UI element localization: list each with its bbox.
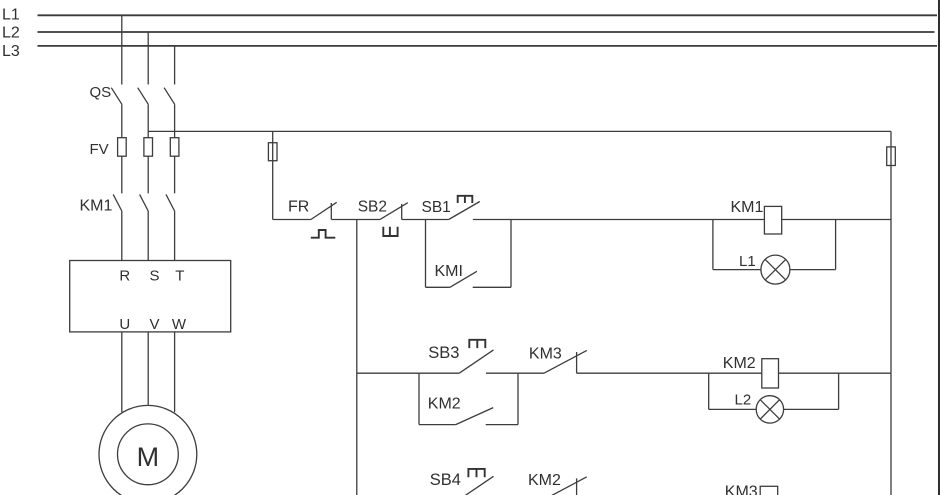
svg-text:L2: L2 <box>2 25 20 42</box>
rung1 wire SB2 to SB1 <box>402 219 449 221</box>
KM1 auxiliary contact branch (KMI) <box>426 220 512 288</box>
rung2 wire SB3 to KM3 <box>486 372 544 374</box>
fuse FV pole 3 <box>170 138 179 157</box>
control left fuse drop wire <box>272 131 274 219</box>
start pushbutton SB4 (NO, partially clipped) <box>459 476 493 495</box>
rung1 wire FR to SB2 <box>331 219 380 221</box>
rung2 wire KM3 to KM2 coil <box>577 372 762 374</box>
KM2 auxiliary contact branch <box>419 373 518 424</box>
svg-text:T: T <box>175 267 184 284</box>
svg-text:FV: FV <box>90 141 109 158</box>
start pushbutton SB1 (NO) <box>449 202 480 220</box>
interlock contact KM3 (NC) <box>544 350 587 373</box>
wire phase1 fuse to KM1 <box>121 156 123 193</box>
svg-text:KM2: KM2 <box>528 472 561 489</box>
SB3 pushbutton actuator symbol <box>469 340 485 348</box>
wire phase3 drop from L3 <box>174 46 176 85</box>
disconnect switch QS pole 2 <box>138 88 149 138</box>
svg-text:V: V <box>149 316 159 333</box>
wire phase3 fuse to KM1 <box>174 156 176 193</box>
svg-text:S: S <box>149 267 159 284</box>
svg-text:SB4: SB4 <box>430 471 461 489</box>
contactor coil KM2 <box>762 359 779 388</box>
svg-text:QS: QS <box>90 84 112 101</box>
rung2 wire left <box>357 372 459 374</box>
FR thermal element symbol <box>311 230 336 238</box>
control left fuse <box>268 143 277 161</box>
svg-text:L2: L2 <box>735 391 752 408</box>
rung1 wire coil to right bus <box>782 219 891 221</box>
interlock contact KM2 (NC, partially clipped) <box>544 477 587 495</box>
drawing frame right border <box>938 0 940 495</box>
svg-text:KM1: KM1 <box>80 198 113 215</box>
SB2 pushbutton actuator symbol <box>383 227 397 236</box>
contactor KM1 main contact pole 1 <box>113 194 122 260</box>
contactor KM1 main contact pole 3 <box>166 194 175 260</box>
contactor KM1 main contact pole 2 <box>140 194 149 260</box>
contactor coil KM3 (partially clipped) <box>760 486 778 495</box>
SB4 pushbutton actuator symbol <box>468 469 484 477</box>
SB1 pushbutton actuator symbol <box>458 196 473 203</box>
rung2 wire coil to right bus <box>779 372 892 374</box>
power bus L3 <box>38 45 938 47</box>
svg-text:KMI: KMI <box>435 263 463 280</box>
wire phase2 drop from L2 <box>147 32 149 85</box>
indicator lamp L2 <box>756 396 783 423</box>
fuse FV pole 2 <box>144 138 153 157</box>
rung1 wire left <box>273 219 311 221</box>
motor M outer circle <box>99 405 197 495</box>
svg-text:SB2: SB2 <box>358 198 387 215</box>
thermal overload contact FR <box>311 202 337 219</box>
wire W to motor <box>174 332 176 412</box>
wire V to motor <box>147 332 149 405</box>
disconnect switch QS pole 3 <box>164 88 175 138</box>
control feed wire top <box>148 130 891 132</box>
lamp L2 branch wires <box>709 373 839 409</box>
control right bus wire <box>890 131 892 495</box>
svg-text:L1: L1 <box>2 7 20 24</box>
rung1 wire SB1 to KM1 coil <box>473 219 765 221</box>
svg-text:FR: FR <box>288 199 309 216</box>
motor M inner circle <box>117 424 178 485</box>
svg-text:W: W <box>172 316 187 333</box>
svg-text:L3: L3 <box>2 43 20 60</box>
indicator lamp L1 <box>761 255 790 284</box>
svg-text:SB3: SB3 <box>428 344 459 362</box>
control right fuse <box>887 147 896 166</box>
left bus wire for rungs 2-3 <box>356 220 358 495</box>
svg-text:KM3: KM3 <box>529 345 562 362</box>
start pushbutton SB3 (NO) <box>459 350 493 373</box>
svg-text:KM2: KM2 <box>428 395 461 412</box>
disconnect switch QS pole 1 <box>111 88 122 138</box>
svg-text:U: U <box>119 316 130 333</box>
power bus L2 <box>38 31 935 33</box>
stop pushbutton SB2 (NC) <box>380 203 408 220</box>
power bus L1 <box>38 14 938 16</box>
svg-text:L1: L1 <box>739 253 756 270</box>
lamp L1 branch wires <box>713 220 836 270</box>
svg-text:KM1: KM1 <box>731 199 764 216</box>
terminal box RST/UVW <box>70 261 231 332</box>
svg-text:KM2: KM2 <box>723 355 756 372</box>
svg-text:KM3: KM3 <box>725 484 758 495</box>
svg-text:SB1: SB1 <box>422 199 451 216</box>
fuse FV pole 1 <box>118 138 127 157</box>
svg-text:R: R <box>119 267 130 284</box>
wire phase2 fuse to KM1 <box>147 156 149 193</box>
svg-text:M: M <box>137 442 160 472</box>
wire phase1 drop from L1 <box>121 15 123 84</box>
contactor coil KM1 <box>764 206 781 234</box>
wire U to motor <box>121 332 123 412</box>
